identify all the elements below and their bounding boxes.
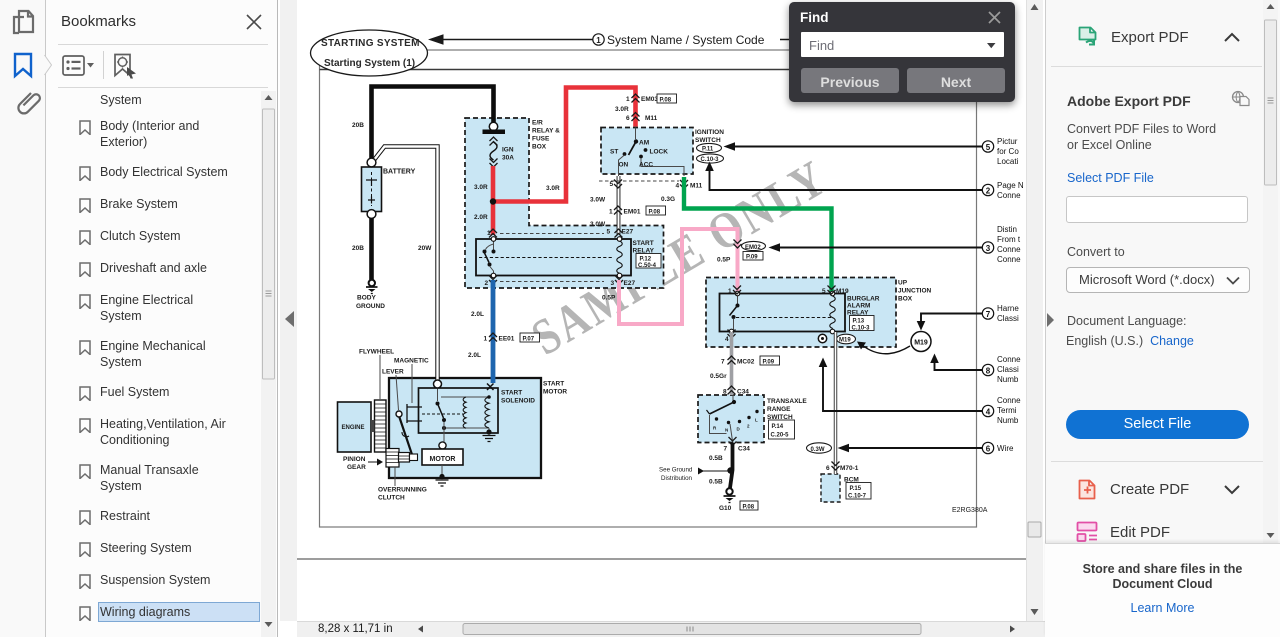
wire 0.5P start relay pin 3 to burglar alarm relay pin 1 (pink) bbox=[602, 229, 738, 324]
svg-text:P.15: P.15 bbox=[850, 486, 862, 492]
connector M70-1 pin 6 (white wire) bbox=[826, 462, 859, 473]
motor bbox=[422, 442, 463, 486]
svg-text:0.5B: 0.5B bbox=[709, 455, 723, 462]
svg-text:Conne: Conne bbox=[997, 245, 1021, 254]
node: junction on red wire bbox=[490, 198, 496, 204]
ignition switch contacts bbox=[610, 128, 684, 177]
ground: body ground bbox=[356, 280, 385, 310]
svg-text:2: 2 bbox=[986, 186, 991, 195]
svg-text:1: 1 bbox=[487, 230, 491, 237]
svg-text:C.10-3: C.10-3 bbox=[701, 157, 720, 163]
svg-text:RELAY &: RELAY & bbox=[532, 128, 560, 135]
transaxle range switch box bbox=[698, 395, 807, 443]
start relay pin 1 bbox=[487, 229, 497, 238]
svg-text:5: 5 bbox=[610, 181, 614, 188]
svg-text:EE01: EE01 bbox=[499, 335, 515, 342]
white wire terminal at start motor bbox=[434, 380, 442, 388]
svg-text:P.12: P.12 bbox=[640, 256, 652, 262]
svg-text:Pictur: Pictur bbox=[997, 137, 1018, 146]
ignition switch label P.11 / C.10-3 bbox=[695, 129, 724, 163]
connector M19 oval under relay bbox=[818, 334, 855, 344]
svg-text:C.10-3: C.10-3 bbox=[852, 326, 871, 332]
svg-text:E27: E27 bbox=[622, 229, 634, 236]
svg-text:0.5B: 0.5B bbox=[709, 479, 723, 486]
E/R relay & fuse box (dashed block) bbox=[465, 118, 664, 288]
svg-text:M11: M11 bbox=[690, 183, 703, 190]
svg-text:GROUND: GROUND bbox=[356, 303, 385, 310]
svg-text:3: 3 bbox=[611, 280, 615, 287]
callout 8: connector classification number bbox=[930, 354, 1021, 385]
callout 2: page number / connector bbox=[705, 162, 1024, 201]
burglar alarm relay bbox=[720, 291, 880, 334]
svg-text:1: 1 bbox=[596, 36, 601, 45]
flywheel bbox=[359, 349, 394, 453]
svg-text:C.10-7: C.10-7 bbox=[848, 494, 867, 500]
svg-text:P.08: P.08 bbox=[649, 209, 661, 215]
Export PDF header bbox=[1078, 26, 1099, 49]
svg-text:EM01: EM01 bbox=[624, 208, 641, 215]
burglar alarm relay pin 4 bbox=[725, 330, 736, 344]
svg-text:3.0W: 3.0W bbox=[590, 197, 606, 204]
svg-text:C34: C34 bbox=[737, 388, 749, 395]
svg-text:P.11: P.11 bbox=[702, 147, 714, 153]
overrunning clutch (label) bbox=[378, 467, 427, 502]
callout 1: System Name / System Code bbox=[428, 33, 976, 47]
svg-text:Locati: Locati bbox=[997, 157, 1019, 166]
svg-text:N: N bbox=[725, 428, 728, 433]
callout 7: harness classification bbox=[917, 304, 1020, 331]
ignition switch box bbox=[601, 128, 693, 175]
svg-text:P.08: P.08 bbox=[743, 504, 755, 510]
wire 3.0R branch junction to ignition switch (red) bbox=[493, 88, 636, 202]
svg-text:2: 2 bbox=[485, 280, 489, 287]
svg-text:BOX: BOX bbox=[532, 144, 547, 151]
callout 3: distinguish from connector bbox=[769, 225, 1022, 264]
fuse IGN 30A bbox=[483, 122, 515, 167]
svg-text:EM02: EM02 bbox=[745, 245, 761, 251]
svg-text:Numb: Numb bbox=[997, 416, 1019, 425]
svg-text:4: 4 bbox=[676, 183, 680, 190]
right panel scrollbar bbox=[1263, 0, 1278, 545]
svg-text:30A: 30A bbox=[502, 155, 514, 162]
svg-text:ACC: ACC bbox=[639, 162, 653, 169]
svg-text:6: 6 bbox=[986, 444, 991, 453]
start relay pin 2 bbox=[485, 276, 498, 288]
bookmark-target icon bbox=[112, 53, 138, 79]
svg-text:START: START bbox=[501, 390, 522, 397]
svg-text:UP: UP bbox=[898, 280, 908, 287]
svg-text:RANGE: RANGE bbox=[767, 406, 791, 413]
connector EM02 P.09 (pink wire) bbox=[734, 240, 766, 261]
connector M11 pin 6 (red wire) bbox=[626, 113, 658, 122]
svg-text:SOLENOID: SOLENOID bbox=[501, 398, 535, 405]
burglar alarm relay pin 5 M19 bbox=[822, 286, 849, 296]
callout 6: wire bbox=[838, 442, 1014, 453]
bookmarks scrollbar bbox=[261, 91, 276, 637]
wire 2.0R junction to start relay pin 1 (red) bbox=[474, 202, 493, 236]
connector EE01 P.07 pin 1 (blue wire) bbox=[484, 333, 540, 342]
wire 3.0R fuse to junction (red) bbox=[474, 166, 493, 202]
svg-text:Distribution: Distribution bbox=[661, 475, 693, 482]
svg-text:Conne: Conne bbox=[997, 355, 1021, 364]
wire 2.0L start relay pin 2 to start motor (blue) bbox=[468, 280, 493, 383]
wire 20B battery positive (thick black) bbox=[352, 87, 494, 164]
svg-text:0.3W: 0.3W bbox=[811, 447, 825, 453]
svg-text:M19: M19 bbox=[914, 340, 928, 347]
svg-text:TRANSAXLE: TRANSAXLE bbox=[767, 398, 807, 405]
svg-text:1: 1 bbox=[609, 208, 613, 215]
svg-text:L: L bbox=[755, 418, 758, 423]
svg-text:0.5Gr: 0.5Gr bbox=[710, 373, 727, 380]
burglar alarm relay pin 1 bbox=[728, 286, 741, 296]
svg-text:BOX: BOX bbox=[898, 296, 913, 303]
options icon bbox=[62, 55, 96, 77]
svg-text:P.09: P.09 bbox=[746, 255, 758, 261]
svg-text:Classi: Classi bbox=[997, 314, 1019, 323]
svg-text:M19: M19 bbox=[836, 288, 849, 295]
wire 20W battery to start motor (outlined white wire) bbox=[374, 147, 438, 382]
svg-text:SWITCH: SWITCH bbox=[695, 137, 721, 144]
svg-text:0.5P: 0.5P bbox=[602, 295, 616, 302]
svg-text:FLYWHEEL: FLYWHEEL bbox=[359, 349, 394, 356]
connector M11 pin 4 (green wire) bbox=[676, 180, 703, 190]
burglar alarm relay box (UP junction box) bbox=[706, 278, 932, 348]
svg-text:G10: G10 bbox=[719, 505, 732, 512]
svg-text:for Co: for Co bbox=[997, 147, 1019, 156]
start solenoid bbox=[407, 384, 535, 444]
connector M11 housing dashed line bbox=[599, 180, 679, 182]
connector E27 housing dashed lines bbox=[500, 234, 604, 282]
svg-text:MAGNETIC: MAGNETIC bbox=[394, 358, 429, 365]
lever bbox=[382, 369, 414, 460]
svg-text:IGN: IGN bbox=[502, 147, 514, 154]
svg-text:ALARM: ALARM bbox=[847, 303, 870, 310]
svg-text:EM03: EM03 bbox=[641, 96, 658, 103]
svg-text:FUSE: FUSE bbox=[532, 136, 550, 143]
svg-text:2.0L: 2.0L bbox=[471, 311, 484, 318]
svg-text:P.08: P.08 bbox=[660, 97, 672, 103]
connector C34 pin 7 (black wire) bbox=[724, 437, 751, 453]
pages icon bbox=[14, 11, 33, 33]
svg-text:5: 5 bbox=[986, 143, 991, 152]
connector C34 pin 8 (gray wire) bbox=[723, 386, 749, 395]
svg-text:M70-1: M70-1 bbox=[840, 465, 859, 472]
svg-text:M19: M19 bbox=[839, 338, 851, 344]
wire 0.3G ignition switch to burglar alarm relay (green) bbox=[661, 177, 832, 292]
svg-text:4: 4 bbox=[986, 407, 991, 416]
page separator line bbox=[297, 558, 1026, 560]
svg-text:MOTOR: MOTOR bbox=[543, 389, 567, 396]
svg-text:Harne: Harne bbox=[997, 304, 1019, 313]
svg-text:LEVER: LEVER bbox=[382, 369, 404, 376]
magnetic (label) bbox=[394, 358, 429, 404]
svg-text:3.0R: 3.0R bbox=[546, 185, 560, 192]
svg-text:BODY: BODY bbox=[357, 295, 376, 302]
svg-text:MOTOR: MOTOR bbox=[430, 456, 456, 463]
svg-text:1: 1 bbox=[484, 335, 488, 342]
svg-text:MC02: MC02 bbox=[737, 358, 755, 365]
Create PDF bbox=[1078, 479, 1098, 501]
svg-text:2.0R: 2.0R bbox=[474, 214, 488, 221]
svg-text:START: START bbox=[543, 381, 564, 388]
svg-text:ST: ST bbox=[610, 149, 618, 156]
svg-text:ON: ON bbox=[619, 162, 629, 169]
svg-text:LOCK: LOCK bbox=[650, 149, 669, 156]
svg-text:20W: 20W bbox=[418, 245, 432, 252]
svg-text:3.0W: 3.0W bbox=[590, 221, 606, 228]
bookmark icon (active) bbox=[15, 54, 31, 76]
BCM box bbox=[821, 474, 871, 502]
svg-text:Conne: Conne bbox=[997, 396, 1021, 405]
svg-text:Numb: Numb bbox=[997, 375, 1019, 384]
svg-text:20B: 20B bbox=[352, 245, 364, 252]
svg-text:0.3G: 0.3G bbox=[661, 196, 675, 203]
svg-text:JUNCTION: JUNCTION bbox=[898, 288, 932, 295]
svg-text:P.13: P.13 bbox=[853, 319, 865, 325]
svg-text:7: 7 bbox=[721, 358, 725, 365]
svg-text:6: 6 bbox=[826, 465, 830, 472]
start motor box bbox=[389, 378, 567, 478]
svg-text:C34: C34 bbox=[738, 446, 750, 453]
callout 5: picture for connector location bbox=[724, 137, 1020, 166]
bottom store section bbox=[1045, 543, 1280, 637]
svg-text:20B: 20B bbox=[352, 122, 364, 129]
svg-text:5: 5 bbox=[822, 288, 826, 295]
svg-text:P.14: P.14 bbox=[772, 424, 784, 430]
svg-text:BATTERY: BATTERY bbox=[383, 169, 416, 176]
svg-text:Wire: Wire bbox=[997, 444, 1014, 453]
svg-text:3.0R: 3.0R bbox=[615, 106, 629, 113]
drawing number bbox=[952, 507, 988, 514]
svg-text:4: 4 bbox=[725, 336, 729, 343]
svg-text:6: 6 bbox=[626, 115, 630, 122]
svg-text:Termi: Termi bbox=[997, 406, 1017, 415]
start relay pin 3 E27 bbox=[611, 276, 636, 288]
svg-text:8: 8 bbox=[723, 388, 727, 395]
svg-text:2.0L: 2.0L bbox=[468, 352, 481, 359]
svg-text:M11: M11 bbox=[645, 115, 658, 122]
svg-text:E2RG380A: E2RG380A bbox=[952, 507, 988, 514]
svg-text:3.0R: 3.0R bbox=[474, 184, 488, 191]
svg-text:E/R: E/R bbox=[532, 120, 543, 127]
svg-text:Conne: Conne bbox=[997, 255, 1021, 264]
wire 20B battery negative bbox=[352, 218, 372, 280]
connector M19 annotation circle bbox=[857, 332, 931, 354]
svg-text:Classi: Classi bbox=[997, 365, 1019, 374]
start relay pin 5 E27 bbox=[607, 229, 634, 238]
transaxle range switch contacts bbox=[707, 395, 759, 441]
connector MC02 P.09 pin 7 (gray wire) bbox=[721, 356, 780, 365]
svg-text:CLUTCH: CLUTCH bbox=[378, 495, 405, 502]
paperclip icon bbox=[18, 93, 40, 113]
svg-text:Starting System (1): Starting System (1) bbox=[324, 58, 415, 69]
wire 0.5B transaxle range switch to ground G10 (black) bbox=[709, 443, 733, 488]
svg-text:ENGINE: ENGINE bbox=[342, 425, 365, 431]
title oval STARTING SYSTEM bbox=[311, 30, 428, 76]
ground G10 P.08 bbox=[719, 488, 758, 512]
svg-text:P.09: P.09 bbox=[763, 359, 775, 365]
svg-text:PINION: PINION bbox=[343, 456, 366, 463]
engine bbox=[338, 402, 372, 452]
svg-text:C.20-5: C.20-5 bbox=[771, 433, 790, 439]
svg-text:AM: AM bbox=[639, 140, 649, 147]
connector EM01 P.08 pin 1 (white wire) bbox=[609, 206, 666, 215]
svg-text:GEAR: GEAR bbox=[347, 464, 366, 471]
svg-text:7: 7 bbox=[986, 310, 991, 319]
svg-text:0.5P: 0.5P bbox=[717, 257, 731, 264]
notch on divider at bookmark icon level bbox=[45, 55, 52, 75]
svg-text:7: 7 bbox=[724, 446, 728, 453]
svg-text:From t: From t bbox=[997, 235, 1021, 244]
svg-text:P.07: P.07 bbox=[523, 336, 535, 342]
svg-text:Distin: Distin bbox=[997, 225, 1017, 234]
svg-text:STARTING SYSTEM: STARTING SYSTEM bbox=[321, 38, 420, 49]
svg-text:OVERRUNNING: OVERRUNNING bbox=[378, 487, 427, 494]
wire 0.5Gr relay pin 4 to transaxle range switch (gray) bbox=[710, 332, 732, 395]
connector EM03 P.08 pin 1 (red wire) bbox=[626, 94, 677, 103]
diagram outer frame (drawn, unlabeled) bbox=[320, 50, 977, 527]
svg-text:5: 5 bbox=[607, 229, 611, 236]
svg-text:1: 1 bbox=[728, 288, 732, 295]
svg-text:System Name / System Code: System Name / System Code bbox=[607, 33, 765, 47]
svg-text:1: 1 bbox=[626, 96, 630, 103]
svg-text:See Ground: See Ground bbox=[659, 467, 693, 474]
pinion gear bbox=[343, 449, 418, 472]
svg-text:3: 3 bbox=[986, 244, 991, 253]
svg-text:E27: E27 bbox=[624, 280, 636, 287]
battery bbox=[362, 158, 416, 218]
svg-text:START: START bbox=[633, 240, 654, 247]
callout 4: connector terminal number bbox=[819, 358, 1021, 426]
wire 3.0W ignition switch to start relay pin 5 (white wire) bbox=[590, 176, 622, 235]
node: junction on 0.5B wire / see ground distribution bbox=[659, 467, 734, 483]
svg-text:BURGLAR: BURGLAR bbox=[847, 296, 880, 303]
svg-text:IGNITION: IGNITION bbox=[695, 129, 724, 136]
Edit PDF bbox=[1076, 521, 1098, 542]
svg-text:8: 8 bbox=[986, 366, 991, 375]
start relay bbox=[476, 237, 661, 278]
svg-text:Conne: Conne bbox=[997, 191, 1021, 200]
svg-text:C.50-4: C.50-4 bbox=[638, 263, 657, 269]
svg-text:Page N: Page N bbox=[997, 181, 1024, 190]
wire 0.3W burglar alarm relay to BCM (white wire) bbox=[807, 332, 836, 474]
